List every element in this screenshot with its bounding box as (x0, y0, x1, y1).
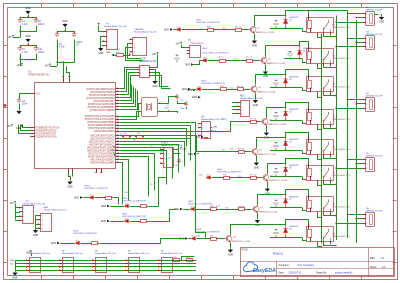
svg-text:GND: GND (101, 221, 106, 223)
svg-text:1k: 1k (250, 57, 252, 59)
svg-text:SDA: SDA (10, 259, 15, 262)
svg-text:C16: C16 (225, 207, 228, 209)
svg-text:+5V: +5V (7, 36, 12, 39)
svg-text:VCC: VCC (273, 170, 279, 174)
svg-text:VCC: VCC (273, 114, 279, 118)
svg-text:G6DN-LA-SL DC5: G6DN-LA-SL DC5 (333, 57, 352, 60)
svg-text:4.7uF: 4.7uF (59, 47, 65, 49)
svg-text:(PCINT21/OC0B/T1)PD5: (PCINT21/OC0B/T1)PD5 (89, 95, 115, 97)
svg-text:(PCINT22/OC0A/AIN0)PD6: (PCINT22/OC0A/AIN0)PD6 (86, 97, 115, 100)
svg-text:+5V: +5V (25, 201, 29, 203)
svg-text:(PCINT6/XTAL1/TOSC1)PB6: (PCINT6/XTAL1/TOSC1)PB6 (85, 115, 116, 118)
svg-text:PD1(TXD/PCINT17): PD1(TXD/PCINT17) (36, 133, 57, 135)
svg-text:VCC: VCC (36, 94, 41, 96)
svg-text:MMBT5551_C2146: MMBT5551_C2146 (256, 32, 275, 34)
svg-text:MMBT5551_C2146: MMBT5551_C2146 (259, 212, 278, 214)
svg-text:GND: GND (74, 198, 79, 200)
svg-text:G6DN-LA-SL DC5: G6DN-LA-SL DC5 (333, 86, 352, 89)
svg-text:VCC: VCC (174, 56, 180, 60)
svg-text:+5V: +5V (44, 64, 49, 67)
svg-text:QR7060-7.62-3P: QR7060-7.62-3P (366, 155, 383, 157)
svg-text:+5V: +5V (6, 125, 11, 128)
svg-text:GND: GND (252, 44, 258, 47)
svg-text:GND: GND (25, 7, 31, 10)
svg-text:100nF: 100nF (38, 52, 45, 54)
svg-text:1k: 1k (242, 206, 244, 208)
svg-text:G6DN-LA-SL DC5: G6DN-LA-SL DC5 (333, 118, 352, 121)
svg-text:GND: GND (101, 206, 106, 208)
svg-text:Header-Male-C34_1x4: Header-Male-C34_1x4 (62, 252, 84, 255)
svg-text:GND: GND (106, 52, 111, 54)
svg-text:SDA: SDA (213, 125, 218, 128)
svg-text:PC6(RESET/PCINT14): PC6(RESET/PCINT14) (36, 127, 60, 129)
svg-text:QR7060-7.62-3P: QR7060-7.62-3P (366, 9, 383, 11)
svg-text:judson.hartley2: judson.hartley2 (334, 270, 353, 274)
svg-text:MMBT5551_C2146: MMBT5551_C2146 (258, 154, 277, 156)
svg-text:G6DN-LA-SL DC5: G6DN-LA-SL DC5 (333, 26, 352, 29)
svg-text:(ADC7/AIN23/X2)ADC7: (ADC7/AIN23/X2)ADC7 (90, 159, 115, 162)
svg-text:VCC: VCC (273, 231, 279, 235)
svg-text:Header-Male-C34_1x4: Header-Male-C34_1x4 (161, 252, 183, 255)
svg-text:LED2: LED2 (202, 48, 208, 50)
svg-text:MMBT5551_C2146: MMBT5551_C2146 (268, 124, 287, 126)
svg-text:CH2178HC-CL2VBYR/Y3T: CH2178HC-CL2VBYR/Y3T (201, 83, 226, 85)
svg-text:CH2178HC-CL2VBYR/Y3T: CH2178HC-CL2VBYR/Y3T (122, 200, 147, 202)
svg-text:C10: C10 (222, 28, 225, 30)
svg-text:GND: GND (98, 52, 104, 55)
svg-text:GND: GND (16, 127, 22, 130)
svg-text:Header-Male-2.54_1x6: Header-Male-2.54_1x6 (134, 31, 157, 34)
svg-text:1/1: 1/1 (382, 265, 386, 269)
svg-text:SDA: SDA (222, 118, 227, 121)
svg-text:ADC: ADC (240, 94, 245, 97)
svg-text:(AREF/AIN00/X1)AREF: (AREF/AIN00/X1)AREF (90, 162, 115, 165)
svg-text:CH2178HC-CL2VBYR/Y3T: CH2178HC-CL2VBYR/Y3T (73, 233, 98, 235)
svg-text:Header-Male-2.54_1x4: Header-Male-2.54_1x4 (44, 209, 67, 212)
svg-text:CH2178HC-CL2VBYR/Y3T: CH2178HC-CL2VBYR/Y3T (84, 188, 109, 190)
svg-text:Header-Male-C34_1x4: Header-Male-C34_1x4 (29, 252, 51, 255)
svg-text:(PCINT16/RXD/INT3)PD0: (PCINT16/RXD/INT3)PD0 (88, 157, 115, 159)
svg-text:(ADC6/AIN22)ADC6: (ADC6/AIN22)ADC6 (94, 130, 116, 133)
svg-text:VCC: VCC (273, 22, 279, 26)
svg-text:(ADC1/PCINT9/T2)PC1: (ADC1/PCINT9/T2)PC1 (90, 138, 115, 141)
svg-text:Date:: Date: (279, 271, 285, 274)
svg-text:GND: GND (187, 90, 192, 92)
svg-text:G6DN-LA-SL DC5: G6DN-LA-SL DC5 (333, 174, 352, 177)
svg-text:4: 4 (140, 75, 141, 77)
svg-text:2: 2 (190, 51, 191, 53)
svg-text:QR7060-7.62-3P: QR7060-7.62-3P (366, 34, 383, 36)
svg-text:(ADC0/PCINT8/T1)PC0: (ADC0/PCINT8/T1)PC0 (90, 135, 115, 138)
svg-text:QR7060-7.62-3P: QR7060-7.62-3P (366, 95, 383, 97)
svg-text:GND: GND (62, 20, 68, 23)
svg-text:C11: C11 (234, 59, 237, 61)
svg-text:GND: GND (228, 253, 234, 256)
svg-text:CH-2.5TBHC-CL2VBYR/Y3T: CH-2.5TBHC-CL2VBYR/Y3T (202, 53, 230, 55)
svg-text:1k: 1k (242, 148, 244, 150)
svg-text:1: 1 (190, 47, 191, 49)
svg-text:Header-Male-2.54_1x1: Header-Male-2.54_1x1 (23, 202, 46, 205)
svg-text:+5V: +5V (25, 252, 30, 255)
svg-text:CH2178HC-CL2VBYR/Y3T: CH2178HC-CL2VBYR/Y3T (122, 216, 147, 218)
svg-text:Header-Male-C34_1x4: Header-Male-C34_1x4 (128, 252, 150, 255)
svg-text:+5V: +5V (175, 42, 180, 45)
svg-text:4.7k: 4.7k (174, 264, 178, 266)
svg-text:GND: GND (164, 30, 169, 32)
svg-text:ATMEGA328P-AU: ATMEGA328P-AU (28, 72, 49, 76)
svg-text:20nF: 20nF (22, 104, 28, 106)
svg-text:VCC: VCC (111, 148, 117, 152)
svg-text:GND: GND (379, 21, 385, 24)
svg-text:+5V: +5V (9, 202, 14, 205)
svg-text:EasyEDA: EasyEDA (253, 268, 276, 274)
svg-text:GND: GND (188, 154, 193, 156)
svg-text:1k: 1k (254, 118, 256, 120)
svg-text:(PCINT5/SCK/PCI13)PB5: (PCINT5/SCK/PCI13)PB5 (88, 128, 115, 130)
svg-text:Header-Male-C34_1x4: Header-Male-C34_1x4 (95, 252, 117, 255)
svg-text:GND: GND (253, 104, 259, 107)
svg-text:PD0(RXD/PCINT16): PD0(RXD/PCINT16) (36, 130, 57, 132)
svg-text:CH2178HC-CL2VBYR/Y3T: CH2178HC-CL2VBYR/Y3T (196, 22, 221, 24)
svg-text:1.0: 1.0 (381, 256, 385, 260)
svg-text:4.7k: 4.7k (187, 264, 191, 266)
svg-text:(PCINT17/TXD/INT2)PD1: (PCINT17/TXD/INT2)PD1 (88, 154, 115, 156)
svg-text:C12: C12 (230, 87, 233, 89)
svg-text:REV:: REV: (370, 257, 376, 260)
svg-text:10nF: 10nF (164, 107, 170, 109)
svg-text:+5V: +5V (182, 148, 187, 151)
svg-text:(PCINT4/MISO/PWM)PB4: (PCINT4/MISO/PWM)PB4 (88, 125, 116, 127)
svg-text:CH2178HC-CL2VBYR/Y3T: CH2178HC-CL2VBYR/Y3T (217, 171, 242, 173)
svg-text:Header-Male-2.54_1x6: Header-Male-2.54_1x6 (240, 97, 263, 100)
svg-text:+5V: +5V (152, 53, 157, 56)
svg-text:GND: GND (192, 97, 197, 99)
svg-text:EEPROM-AX-8P: EEPROM-AX-8P (139, 60, 157, 63)
svg-text:(PCINT19/OC2B/INT1)PD3: (PCINT19/OC2B/INT1)PD3 (87, 89, 116, 91)
svg-text:TITLE:: TITLE: (241, 249, 249, 252)
svg-text:4.7uF: 4.7uF (22, 52, 28, 54)
svg-text:(PCINT23/AIN1)PD7: (PCINT23/AIN1)PD7 (93, 100, 115, 103)
svg-text:Drawn By:: Drawn By: (316, 271, 327, 274)
svg-text:100nF: 100nF (38, 24, 45, 26)
svg-text:GND: GND (12, 276, 18, 279)
svg-text:9: 9 (29, 136, 30, 138)
svg-text:(PCINT0/CLKO/ICP1)PB0: (PCINT0/CLKO/ICP1)PB0 (88, 104, 115, 106)
svg-text:VCC: VCC (287, 53, 293, 57)
svg-text:Sheet:: Sheet: (370, 266, 377, 269)
svg-text:Header-Male-2.54_1x4: Header-Male-2.54_1x4 (104, 25, 127, 28)
svg-text:(PCINT2/SS/OC1B)PB2: (PCINT2/SS/OC1B)PB2 (90, 110, 115, 112)
svg-text:G6DN-LA-SL DC5: G6DN-LA-SL DC5 (333, 206, 352, 209)
svg-text:20nF: 20nF (180, 108, 186, 110)
svg-text:(PCINT3/OC2A/MOSI)PB3: (PCINT3/OC2A/MOSI)PB3 (87, 121, 115, 124)
svg-text:(PCINT20/XCK/T0)PD4: (PCINT20/XCK/T0)PD4 (90, 92, 115, 94)
svg-text:GND: GND (195, 137, 200, 139)
svg-text:1k: 1k (143, 131, 145, 133)
svg-text:MMBT5551_C2146: MMBT5551_C2146 (269, 180, 288, 182)
svg-text:GND: GND (33, 234, 39, 237)
svg-text:PVC1: PVC1 (273, 252, 283, 256)
svg-text:QR7060-7.62-3P: QR7060-7.62-3P (366, 210, 383, 212)
svg-text:Header-Male-2.54_1x4: Header-Male-2.54_1x4 (161, 144, 183, 147)
svg-text:GND: GND (254, 166, 260, 169)
svg-text:3: 3 (190, 54, 191, 56)
svg-text:GND: GND (182, 89, 187, 91)
svg-text:1k: 1k (241, 86, 243, 88)
svg-text:VCC: VCC (273, 201, 279, 205)
svg-text:(PCINT7/XTAL2/TOSC2)PB7: (PCINT7/XTAL2/TOSC2)PB7 (85, 118, 116, 121)
svg-text:0.1uF: 0.1uF (22, 24, 28, 26)
svg-text:GND: GND (185, 65, 190, 67)
svg-text:G6DN-LA-SL DC5: G6DN-LA-SL DC5 (333, 235, 352, 238)
svg-text:(ADC3/PCINT11/A3)PC3: (ADC3/PCINT11/A3)PC3 (89, 144, 115, 147)
svg-text:1k: 1k (254, 174, 256, 176)
svg-text:17B-1.00-62x7: 17B-1.00-62x7 (190, 43, 204, 45)
svg-text:C15: C15 (238, 176, 241, 178)
svg-text:MMBT5551_C2146: MMBT5551_C2146 (267, 63, 286, 65)
svg-text:Company:: Company: (279, 264, 290, 267)
svg-text:1k: 1k (130, 131, 132, 133)
svg-text:GND: GND (25, 35, 31, 38)
svg-text:MMBT5551_C2146: MMBT5551_C2146 (257, 92, 276, 94)
svg-text:GND: GND (152, 85, 158, 88)
svg-text:GND: GND (51, 243, 56, 245)
svg-text:2020-07-11: 2020-07-11 (289, 270, 303, 274)
svg-text:G6DN-LA-SL DC5: G6DN-LA-SL DC5 (333, 148, 352, 151)
svg-text:1-AVRISP: 1-AVRISP (134, 28, 144, 31)
svg-text:(ADC2/PCINT10/A2)PC2: (ADC2/PCINT10/A2)PC2 (89, 141, 115, 144)
svg-text:(PCINT1/OC1A/PWM)PB1: (PCINT1/OC1A/PWM)PB1 (87, 106, 115, 109)
svg-text:PD2(INT0/PCINT18): PD2(INT0/PCINT18) (36, 136, 57, 138)
svg-text:GND: GND (263, 75, 269, 78)
svg-text:1k: 1k (239, 26, 241, 28)
svg-text:GND: GND (67, 185, 73, 188)
svg-text:MMBT5551_C2146: MMBT5551_C2146 (232, 241, 251, 243)
svg-text:VCC: VCC (273, 144, 279, 148)
svg-text:VCC: VCC (273, 81, 279, 85)
svg-text:Header-Male-2.54_1x4: Header-Male-2.54_1x4 (201, 118, 224, 121)
svg-text:Your Company: Your Company (297, 263, 315, 267)
